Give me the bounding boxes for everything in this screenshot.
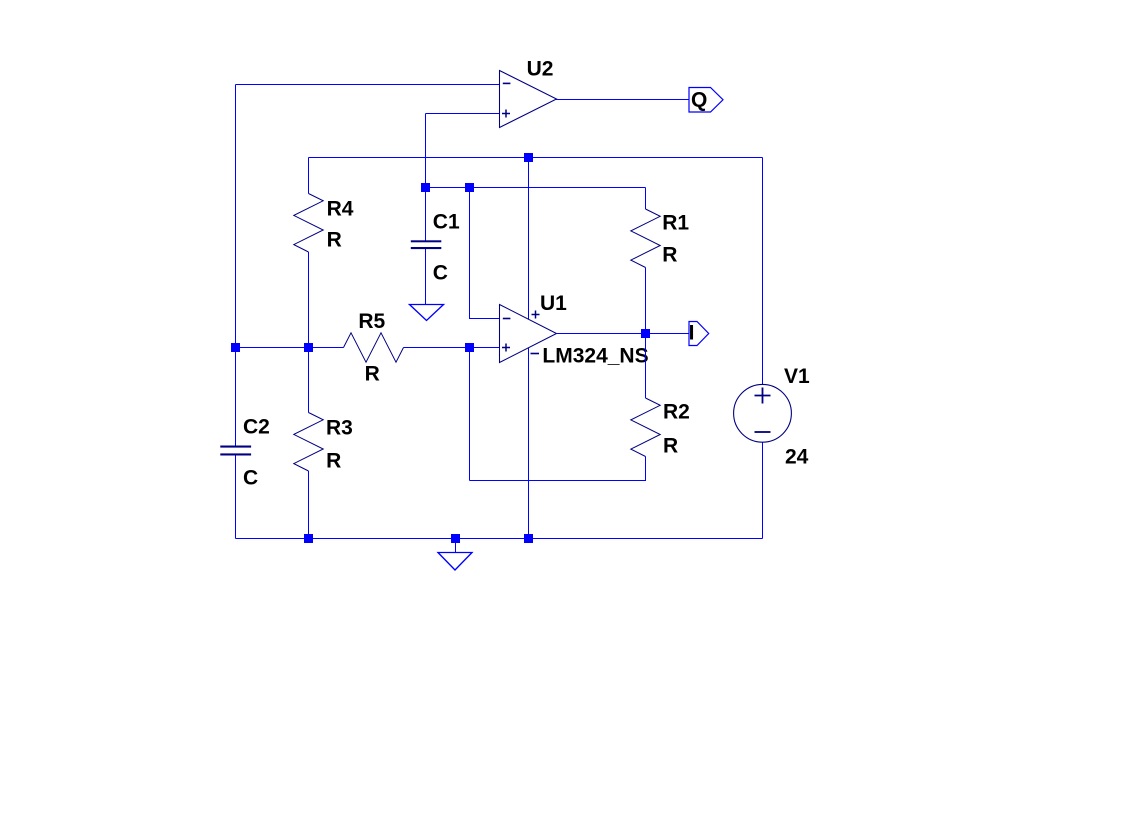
- voltage source V1 plus mark: [755, 388, 771, 404]
- node junction U1 output / R1 R2: [641, 329, 650, 338]
- node junction R3 bottom on ground rail: [304, 534, 313, 543]
- wire R3 top lead: [308, 348, 310, 413]
- op-amp U1 negative supply pin mark: [531, 353, 540, 355]
- svg-text:R: R: [326, 450, 341, 473]
- svg-text:C1: C1: [433, 211, 460, 234]
- node junction ground symbol on ground rail: [451, 534, 460, 543]
- svg-text:R: R: [365, 362, 380, 385]
- wire C1 bottom lead to ground: [425, 249, 427, 305]
- resistor R2 zigzag: [631, 398, 660, 457]
- ground under C1: [410, 305, 444, 321]
- svg-text:R: R: [662, 244, 677, 267]
- wire top supply rail: [309, 157, 763, 159]
- wire R1 bottom lead: [645, 268, 647, 334]
- wire ground stub bottom: [455, 539, 457, 553]
- capacitor C2 bottom plate: [220, 453, 251, 455]
- wire U1 positive supply drop: [528, 158, 530, 320]
- port I outline: [689, 322, 709, 346]
- node junction U1 negative supply on ground rail: [524, 534, 533, 543]
- svg-text:R: R: [327, 229, 342, 252]
- wire R4 bottom lead: [308, 252, 310, 348]
- wire R3 bottom lead: [308, 471, 310, 539]
- op-amp U2 plus input mark: [502, 110, 510, 118]
- op-amp U1 plus input mark: [502, 344, 510, 352]
- wire R4 top lead: [308, 158, 310, 194]
- port Q outline: [689, 88, 723, 113]
- op-amp U1 triangle: [500, 305, 557, 363]
- svg-text:C2: C2: [243, 416, 270, 439]
- wire R2 top lead: [645, 334, 647, 399]
- wire U1 negative supply to ground rail: [528, 348, 530, 539]
- svg-text:R1: R1: [662, 212, 689, 235]
- wire V1 bottom to ground rail: [762, 442, 764, 539]
- wire bottom ground rail: [236, 538, 763, 540]
- wire R5 row right segment to U1: [404, 347, 501, 349]
- svg-text:R: R: [663, 435, 678, 458]
- wire U2 non-inverting input vertical drop to node: [425, 114, 427, 241]
- node junction C1 top: [421, 183, 430, 192]
- wire U2 inverting input (left rail top run): [236, 84, 501, 86]
- wire feedback row to R2 bottom: [470, 457, 646, 481]
- node junction U1 inverting branch: [465, 183, 474, 192]
- svg-text:C: C: [243, 467, 258, 490]
- svg-text:R2: R2: [663, 401, 690, 424]
- node junction at top rail / U1 supply: [524, 153, 533, 162]
- wire node row C1/R1: [426, 187, 646, 189]
- voltage source V1 minus mark: [755, 431, 771, 433]
- wire R5 row left segment: [236, 347, 344, 349]
- capacitor C1 top plate: [411, 240, 442, 242]
- wire U2 output to port Q: [556, 99, 690, 101]
- wire left rail vertical (node to C2 top): [235, 85, 237, 446]
- resistor R3 zigzag: [294, 413, 323, 472]
- svg-text:R5: R5: [358, 310, 385, 333]
- svg-text:U1: U1: [540, 292, 567, 315]
- svg-text:LM324_NS: LM324_NS: [542, 344, 648, 367]
- wire R2 top lead overlay (drawn over label text): [645, 338, 647, 398]
- capacitor C1 bottom plate: [411, 247, 442, 249]
- ground bottom rail: [438, 553, 472, 571]
- node junction R4-R3 / R5 row: [304, 343, 313, 352]
- svg-text:I: I: [689, 322, 695, 345]
- op-amp U1 positive supply pin mark: [532, 311, 540, 319]
- svg-text:U2: U2: [527, 57, 554, 80]
- svg-text:Q: Q: [691, 89, 707, 112]
- op-amp U2 triangle: [500, 71, 557, 128]
- svg-text:R4: R4: [327, 198, 354, 221]
- node junction left rail / R5 row: [231, 343, 240, 352]
- op-amp U2 minus input mark: [503, 83, 511, 85]
- wire U1 plus-node down to feedback row: [469, 348, 471, 481]
- resistor R5 zigzag: [344, 333, 404, 362]
- node junction R5 / U1 non-inverting: [465, 343, 474, 352]
- op-amp U1 minus input mark: [503, 318, 511, 320]
- resistor R1 zigzag: [631, 209, 660, 268]
- svg-text:C: C: [433, 262, 448, 285]
- svg-text:V1: V1: [784, 365, 810, 388]
- resistor R4 zigzag: [294, 194, 323, 253]
- wire right rail to V1 top: [762, 158, 764, 385]
- wire left rail vertical (C2 bottom to ground rail): [235, 456, 237, 539]
- voltage source V1 circle: [734, 384, 792, 442]
- svg-text:24: 24: [785, 446, 809, 469]
- wire U1 output to port I: [557, 333, 690, 335]
- capacitor C2 top plate: [220, 446, 251, 448]
- wire node to U1 inverting input: [470, 188, 501, 319]
- wire R1 top lead: [645, 188, 647, 210]
- svg-text:R3: R3: [326, 417, 353, 440]
- wire U2 non-inverting input horizontal: [426, 113, 501, 115]
